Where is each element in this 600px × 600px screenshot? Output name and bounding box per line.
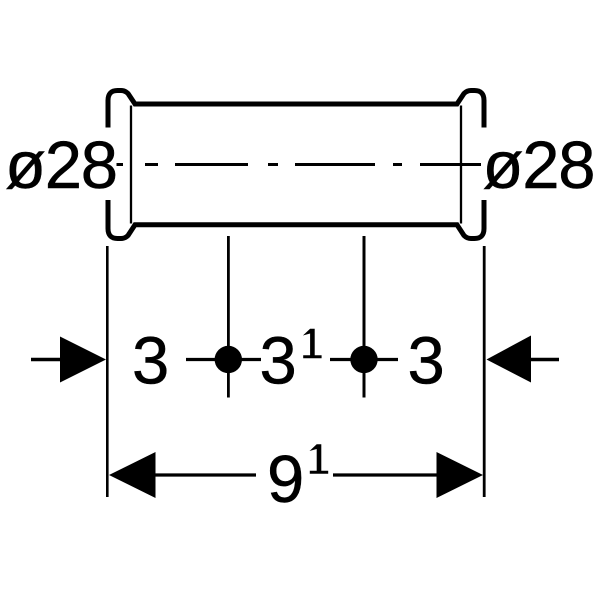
- coupling body bottom outline: [108, 200, 484, 239]
- svg-text:3: 3: [132, 324, 169, 399]
- extension line right outer: [483, 246, 486, 497]
- dim row1 segment through dot1: [186, 358, 261, 361]
- svg-text:ø28: ø28: [483, 128, 595, 203]
- svg-text:ø28: ø28: [5, 128, 117, 203]
- centerline dash-dot: [117, 163, 482, 166]
- dim row2 right arrowhead: [437, 452, 484, 498]
- dim row1 right arrowhead: [487, 336, 532, 383]
- dim row1 left arrow tail: [31, 358, 60, 361]
- superscript 1 bottom: [310, 444, 329, 474]
- svg-text:3: 3: [260, 324, 297, 399]
- right socket depth line: [460, 106, 462, 224]
- dot2: [350, 346, 377, 373]
- dim row2 line left: [155, 473, 256, 476]
- extension line mid-right: [363, 236, 366, 398]
- dot1: [215, 346, 242, 373]
- coupling body top outline: [108, 91, 484, 128]
- superscript 1 middle: [303, 329, 322, 359]
- dim row2 left arrowhead: [109, 452, 156, 498]
- dim row1 right arrow tail: [531, 358, 559, 361]
- extension line mid-left: [227, 236, 230, 398]
- dim row1 segment through dot2: [330, 358, 398, 361]
- dim row1 left arrowhead: [60, 337, 106, 383]
- extension line left outer: [106, 246, 109, 497]
- dim row2 line right: [333, 473, 437, 476]
- left socket depth line: [130, 106, 132, 224]
- svg-text:9: 9: [267, 442, 304, 517]
- svg-text:3: 3: [408, 324, 445, 399]
